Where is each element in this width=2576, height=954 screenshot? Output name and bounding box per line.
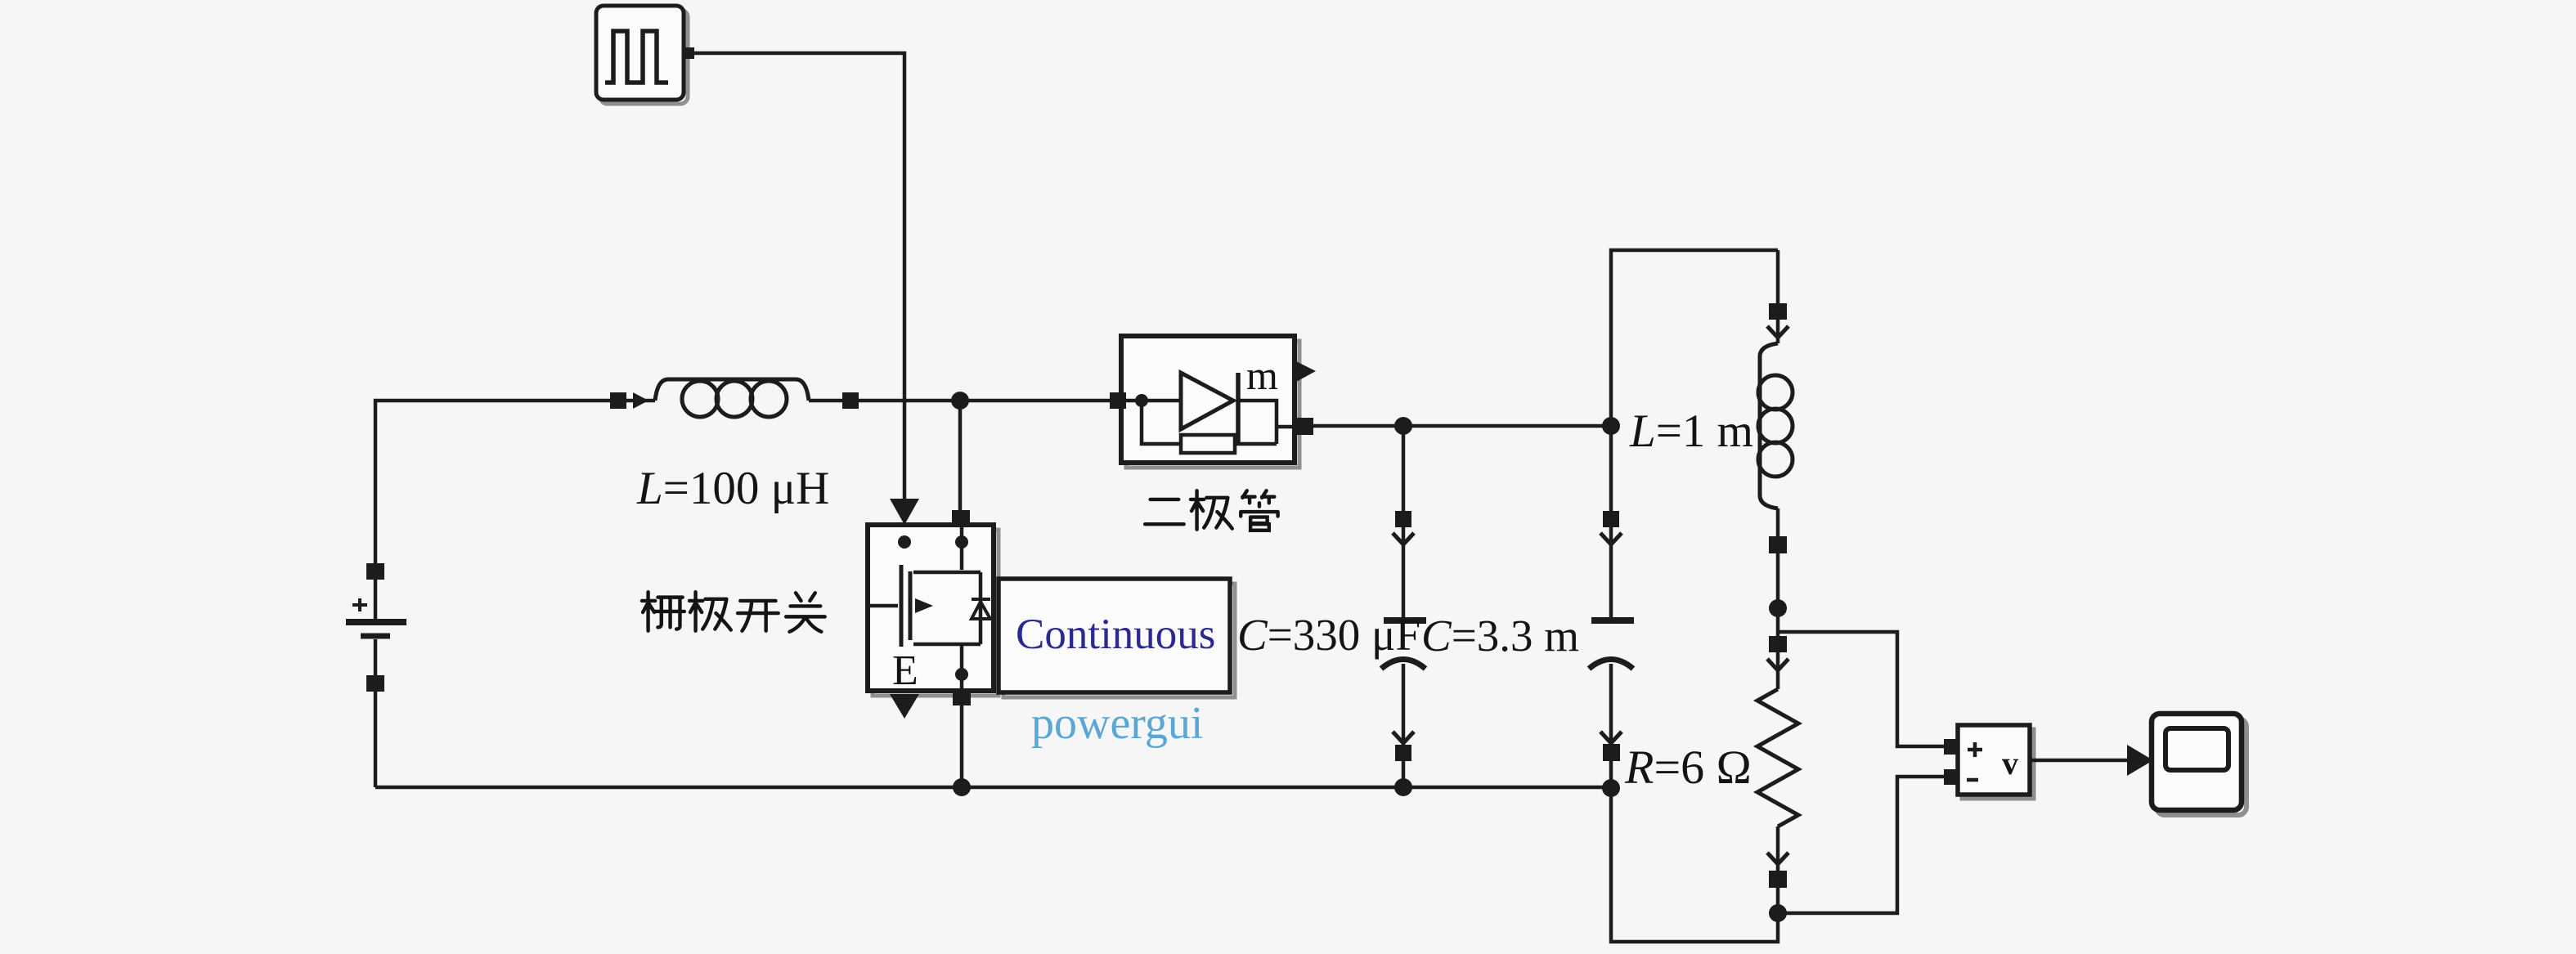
C2 chevron below top port (1600, 533, 1622, 544)
R1 chevron below top port (1767, 659, 1788, 670)
V1 wire top lead (374, 570, 378, 619)
Q1 internal right rail with body diode (979, 572, 983, 644)
C2 chevron above bottom port (1600, 732, 1622, 743)
char kai (open) (738, 601, 779, 631)
C1 curved bottom plate (1381, 660, 1425, 670)
R1 top port square (1769, 636, 1787, 652)
node: junction C2 bottom (1602, 779, 1620, 797)
C1 chevron above bottom port (1393, 732, 1414, 743)
char ji (pole) (1191, 490, 1232, 530)
V1 short plate (361, 634, 390, 639)
wire: junction down to MOSFET drain nub (958, 401, 963, 512)
Q1 internal top rail (913, 571, 981, 575)
Q1 measurement port arrowhead (down, below block) (890, 694, 919, 719)
R1 bottom lead (1776, 826, 1780, 913)
C2 bottom lead (1609, 664, 1613, 788)
L2 coil loop 2 (1758, 409, 1793, 443)
resistor R1 (R=6 ohm) branch (1757, 608, 1798, 913)
V1 plus sign (352, 598, 367, 611)
Q1 internal source lead (960, 644, 964, 691)
D1 snubber resistor (1181, 435, 1235, 453)
L2 bottom port square (1769, 536, 1787, 553)
V1 top port square (366, 563, 384, 580)
svg-text:E: E (892, 647, 918, 694)
node: junction C2 top (1602, 417, 1620, 435)
node: junction MOSFET source on bottom rail (953, 778, 971, 796)
Q1 gate port circle (898, 535, 911, 549)
inductor L2 (L=1 m) branch (1758, 250, 1793, 608)
D1 measurement port arrowhead (right) (1296, 361, 1316, 382)
Q1 body diode (972, 602, 990, 619)
C1 bottom lead (1402, 664, 1406, 787)
L2 top port square (1769, 303, 1787, 320)
Q1 gate bar (900, 565, 904, 647)
C1 top plate (1384, 617, 1426, 624)
C2 bottom port square (1603, 744, 1620, 761)
powergui block (Continuous) (999, 579, 1235, 697)
wire: voltage sense plus (1778, 632, 1945, 746)
D1 cathode lead (1238, 401, 1277, 444)
capacitor C2 (C=3.3 m) branch (1589, 426, 1634, 788)
wire: bottom return loop from R1 bottom to C2 bottom junction (1611, 788, 1778, 942)
C1 bottom port square (1395, 745, 1411, 761)
Q1 internal bottom rail (913, 643, 981, 647)
L1 current direction chevron (633, 392, 648, 409)
svg-text:C=330 μF: C=330 μF (1237, 610, 1420, 660)
svg-text:m: m (1246, 352, 1278, 398)
L2 coil loop 3 (1758, 442, 1793, 477)
V1 bottom lead (374, 639, 378, 685)
scope screen (2165, 728, 2228, 770)
R1 zigzag (1757, 689, 1798, 826)
svg-text:v: v (2002, 745, 2018, 782)
inductor L1 (L=100 uH) (610, 379, 859, 417)
D1 internal node dot (1135, 394, 1148, 407)
wire: diode D1 output to C2 top junction (1312, 424, 1611, 428)
L1 right port square (842, 392, 859, 409)
node: junction R1 bottom / sense-minus (1769, 904, 1787, 922)
wire: battery plus up and right to inductor L1 (375, 401, 612, 572)
wire: MOSFET source nub down to bottom rail (960, 704, 964, 787)
pulse generator output port nub (682, 47, 694, 59)
char guan (switch) (786, 593, 825, 632)
node: junction C1 bottom (1394, 778, 1412, 796)
Q1 drain port circle (955, 535, 968, 549)
L1 coil loop 3 (751, 381, 787, 417)
L1 lead wires (626, 399, 844, 403)
U1 plus port square (1944, 739, 1959, 755)
node: junction L2/R1/sense-plus (1769, 599, 1787, 617)
pulse generator block (Pulse Generator) (596, 6, 688, 104)
svg-text:L=1 m: L=1 m (1629, 405, 1753, 457)
C1 chevron below top port (1393, 533, 1414, 544)
C1 top lead (1402, 426, 1406, 619)
Q1 top connection nub (952, 510, 970, 525)
Q1 channel bar (909, 571, 913, 640)
C1 top port square (1395, 511, 1411, 527)
C2 curved bottom plate (1589, 660, 1633, 670)
Q1 source port circle (955, 668, 968, 681)
U1 minus port square (1944, 769, 1959, 785)
D1 cathode bar (1236, 373, 1241, 444)
voltage measurement block U1 (1958, 725, 2034, 799)
diode block D1 (1121, 336, 1299, 468)
Q1 internal drain lead (960, 527, 964, 570)
R1 chevron above bottom port (1767, 853, 1788, 864)
wire: pulse generator output to MOSFET gate (694, 53, 904, 499)
L1 coil bridge (655, 379, 809, 401)
wire: L1 to diode D1 input (859, 399, 1111, 403)
C2 top lead (1609, 426, 1613, 619)
L2 bottom lead (1776, 508, 1780, 608)
label CJK: diode (er ji guan) (1145, 490, 1277, 531)
char guan (tube) (1241, 490, 1277, 531)
gate signal arrowhead (down) (890, 499, 919, 525)
V1 bottom port square (366, 675, 384, 692)
svg-text:C=3.3 m: C=3.3 m (1421, 611, 1579, 661)
wire: voltage sense minus (1778, 777, 1945, 913)
label CJK: gate switch (shan ji kai guan) (642, 592, 825, 632)
C2 top port square (1603, 511, 1619, 527)
svg-text:Continuous: Continuous (1016, 611, 1215, 658)
L1 coil loop 2 (716, 381, 752, 417)
R1 bottom port square (1769, 871, 1787, 888)
svg-text:L=100 μH: L=100 μH (636, 463, 829, 514)
U1 plus sign (1968, 742, 1982, 757)
L2 coil bridge (1760, 343, 1778, 508)
scope block (2152, 714, 2246, 815)
svg-text:R=6 Ω: R=6 Ω (1624, 741, 1752, 794)
Q1 channel arrow (915, 598, 933, 613)
node: junction at MOSFET drain (951, 392, 969, 410)
R1 top lead (1776, 608, 1780, 689)
D1 diode triangle (1181, 373, 1233, 429)
Q1 bottom connection nub (953, 691, 971, 705)
char er (two) (1145, 499, 1184, 524)
D1 snubber return wire (1235, 442, 1277, 446)
D1 snubber wire (1142, 401, 1181, 444)
D1 output port square (1296, 418, 1313, 435)
wire: riser from C2 junction up and right to L2 top (1611, 250, 1778, 426)
L1 left port square (610, 392, 626, 409)
D1 input port square (1110, 392, 1126, 409)
Q1 gate lead (870, 604, 898, 608)
U1 minus sign (1967, 778, 1978, 782)
L2 top lead (1776, 250, 1780, 343)
MOSFET block Q1 (gate switch) (868, 525, 999, 696)
scope input arrowhead (2127, 745, 2153, 776)
char ji (pole) (689, 592, 731, 631)
D1 output lead (1277, 425, 1299, 429)
wire: battery minus down to bottom rail (374, 683, 378, 787)
C2 top plate (1591, 617, 1634, 624)
V1 long plate (346, 619, 406, 625)
wire: U1 output to scope (2030, 759, 2129, 763)
capacitor C1 (C=330 uF) branch (1381, 426, 1426, 787)
L1 coil loop 1 (682, 381, 718, 417)
battery V1 (DC voltage source) (346, 563, 406, 692)
D1 anode lead (1124, 399, 1181, 403)
char shan (fence) (642, 592, 684, 631)
svg-text:powergui: powergui (1031, 698, 1204, 749)
bottom rail wire (375, 786, 1611, 790)
L2 coil loop 1 (1758, 375, 1793, 410)
node: junction C1 top (1394, 417, 1412, 435)
L2 chevron below top port (1767, 326, 1788, 338)
